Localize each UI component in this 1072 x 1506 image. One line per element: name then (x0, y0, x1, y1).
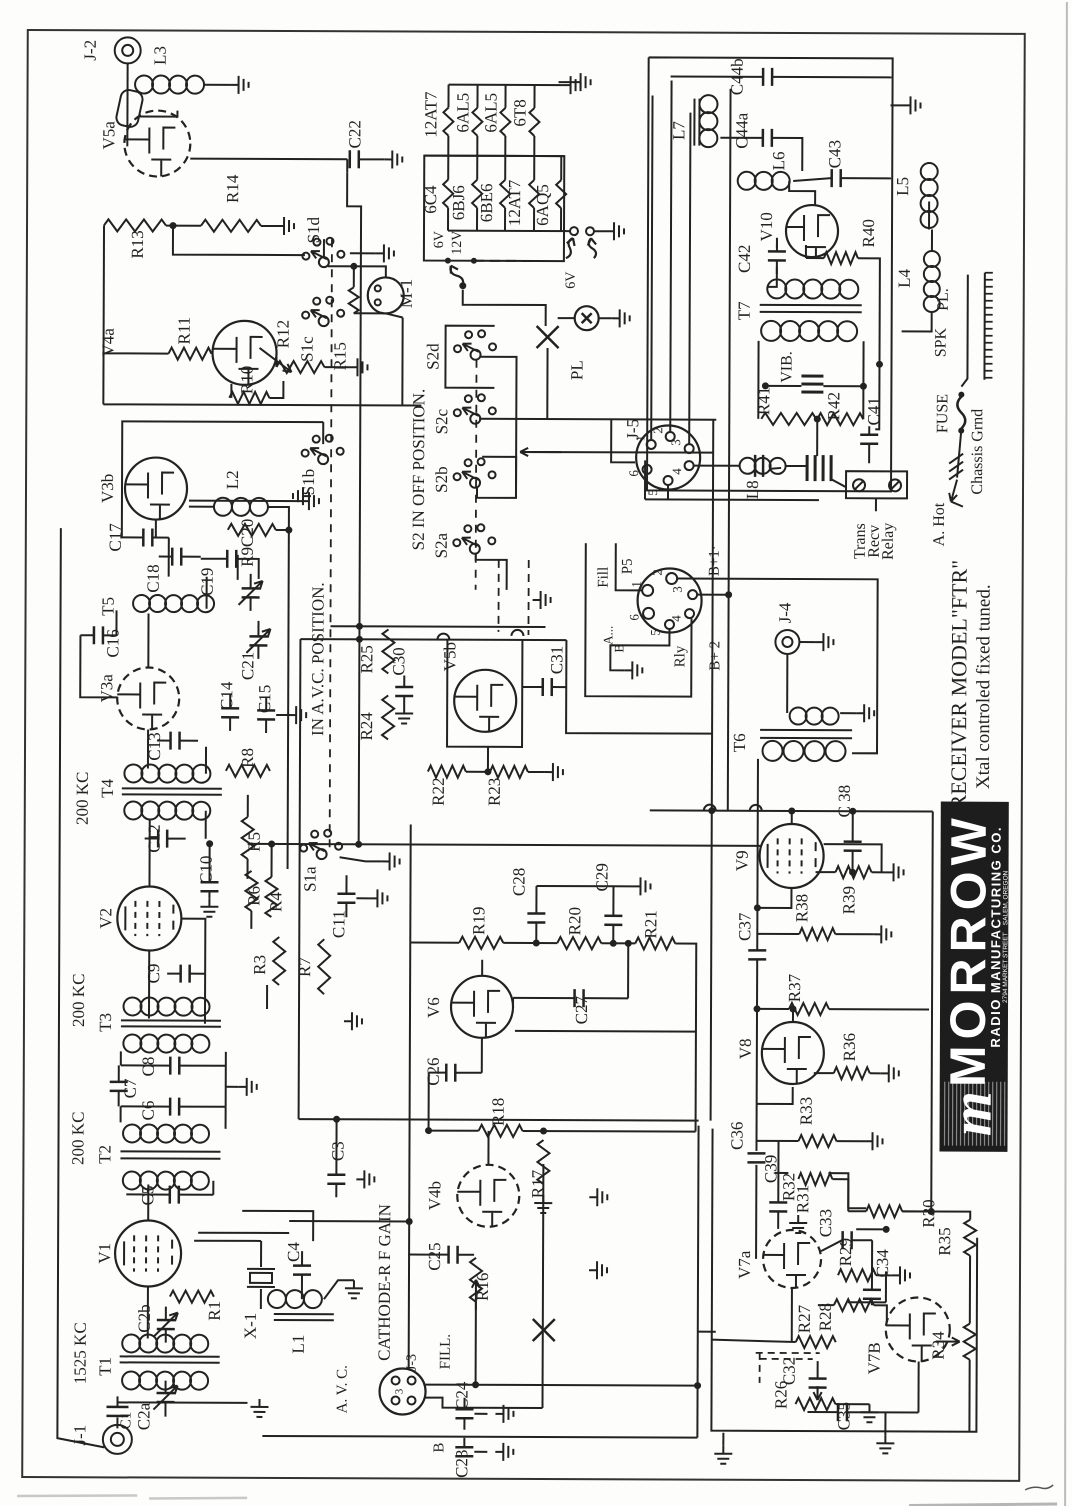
capacitor C5 (170, 1186, 179, 1204)
svg-text:FILL.: FILL. (438, 1334, 454, 1369)
coil L7 (699, 95, 717, 113)
svg-text:L2: L2 (223, 470, 242, 489)
resistor R22 (428, 766, 466, 778)
heater 12AT7 b (533, 156, 535, 180)
potentiometer R16 (470, 1258, 482, 1302)
svg-text:L7: L7 (669, 121, 688, 140)
relay box (846, 471, 907, 498)
wire R6 bottom link (250, 911, 252, 929)
svg-text:B: B (431, 1443, 447, 1453)
wire R39 left (816, 871, 836, 873)
margin scribble (1025, 1485, 1053, 1490)
capacitor C17 (143, 528, 152, 546)
wire C12-T4 link (205, 811, 207, 839)
svg-text:C1: C1 (118, 1412, 134, 1430)
svg-text:m: m (939, 1091, 1004, 1136)
ground C39 (789, 1215, 807, 1233)
wire S1d to C22 line (323, 239, 325, 257)
contact 12V (471, 258, 477, 264)
svg-text:C30: C30 (389, 647, 408, 675)
wire PL leads (558, 317, 575, 319)
svg-text:6: 6 (627, 614, 642, 621)
svg-text:C4: C4 (284, 1242, 303, 1262)
svg-text:R38: R38 (792, 894, 811, 922)
wire audio box (697, 1126, 698, 1438)
wire L3 bottom (138, 110, 177, 116)
switch S1c (319, 316, 329, 326)
tube V10 (786, 205, 838, 257)
wire V3a-T4 (147, 730, 149, 769)
ground R36 (881, 1064, 899, 1082)
svg-text:R12: R12 (274, 320, 293, 348)
switch S1d (319, 257, 329, 267)
wire L2-T5 (237, 555, 239, 580)
svg-text:S1b: S1b (299, 469, 318, 496)
coil L1 (268, 1290, 286, 1308)
heater 6AQ5 (560, 156, 562, 180)
wire T1-V1 (147, 1287, 149, 1339)
resistor R38 (799, 928, 835, 940)
resistor R31 (798, 1173, 832, 1185)
capacitor C30 (395, 687, 413, 696)
wire v5b dash a (497, 560, 499, 632)
svg-text:V5b: V5b (440, 642, 459, 671)
wire R14 to ground (261, 225, 276, 227)
wire bus y1120 (299, 1119, 699, 1121)
svg-text:T4: T4 (98, 778, 117, 797)
svg-text:S2d: S2d (423, 343, 442, 370)
wire C22 to ground (359, 158, 384, 160)
svg-text:R13: R13 (128, 230, 147, 258)
wire terminal b to gnd (594, 230, 606, 232)
svg-text:C31: C31 (547, 646, 566, 674)
svg-text:V9: V9 (733, 850, 752, 871)
svg-text:R15: R15 (330, 342, 349, 370)
svg-text:R1: R1 (205, 1301, 224, 1321)
wire vib right (823, 385, 863, 387)
switch S2d (471, 350, 481, 360)
wire C10 top link (209, 844, 211, 869)
ground V3b rail (301, 492, 319, 510)
svg-text:R23: R23 (485, 778, 504, 806)
svg-text:PL: PL (567, 360, 586, 380)
wire rail y406 (103, 404, 421, 405)
svg-text:R40: R40 (859, 219, 878, 247)
svg-text:R20: R20 (565, 907, 584, 935)
ground C3 (356, 1170, 374, 1188)
ground PL (612, 309, 630, 327)
wire relay down (875, 498, 877, 511)
ground S1a b (382, 852, 400, 870)
svg-text:C43: C43 (825, 140, 844, 168)
transformer T7 (767, 279, 786, 298)
antenna X mark (537, 326, 559, 348)
capacitor C16 (94, 626, 103, 644)
ground C23 (495, 1443, 513, 1461)
svg-text:T1: T1 (96, 1357, 115, 1376)
ground S1b (293, 487, 311, 505)
capacitor C10 (200, 882, 218, 891)
relay screw a (853, 479, 865, 491)
heater 6T8 (533, 85, 535, 108)
svg-text:R36: R36 (840, 1033, 859, 1061)
wire B+1 rail (677, 579, 878, 754)
svg-text:C22: C22 (345, 120, 364, 148)
ground heater terminals (606, 222, 624, 240)
heater 6AL5 b (504, 85, 506, 108)
wire R30 left link (848, 1207, 866, 1209)
vibrator contacts (801, 376, 823, 392)
wire bus x758 (756, 759, 759, 951)
resistor R3 (273, 937, 285, 985)
capacitor C28 (527, 913, 545, 922)
wire R40 right (857, 258, 880, 429)
junction R17 rail (540, 1128, 547, 1135)
wire B+2 lead (698, 594, 729, 596)
svg-text:IN A.V.C. POSITION.: IN A.V.C. POSITION. (308, 582, 328, 736)
wire T2 box right (225, 1052, 227, 1107)
wire V2 plate link (181, 919, 205, 974)
ground C22 (384, 150, 402, 168)
svg-text:C37: C37 (735, 912, 754, 941)
wire rail y452 (521, 451, 713, 454)
resistor R25 (382, 629, 394, 673)
resistor R28 (834, 1299, 874, 1311)
ganging dashed line S1 (330, 239, 332, 854)
resistor R39 (836, 866, 872, 878)
wire 6V junction down (463, 290, 546, 326)
ground box topleft (573, 73, 591, 91)
resistor R23 (490, 766, 528, 778)
svg-text:L3: L3 (151, 46, 170, 65)
wire S2a out (476, 553, 507, 590)
svg-text:R7: R7 (295, 957, 314, 977)
ground C24 (495, 1405, 513, 1423)
wire bus x300 (299, 639, 301, 1119)
svg-text:R11: R11 (175, 317, 194, 345)
resistor R21 (635, 937, 675, 949)
svg-text:FUSE: FUSE (934, 394, 951, 433)
svg-text:2794 MARKET STREET SALEM, O: 2794 MARKET STREET SALEM, OREGON (1002, 870, 1010, 1003)
svg-text:6AQ5: 6AQ5 (533, 184, 552, 226)
wire R16 bottom link (475, 1302, 477, 1385)
resistor R40 (824, 252, 858, 264)
wire C17-C18 link (168, 538, 170, 577)
capacitor C27 (575, 989, 584, 1007)
svg-text:200 KC: 200 KC (68, 1112, 87, 1165)
ground T6 (856, 704, 874, 722)
tube V5b (454, 670, 516, 732)
svg-text:RECEIVER MODEL"FTR": RECEIVER MODEL"FTR" (946, 560, 972, 810)
svg-text:1: 1 (629, 581, 644, 588)
wire R5 bottom link (247, 859, 249, 879)
wire S1d gnd lead (350, 252, 376, 254)
wire box edge x411 (409, 825, 411, 1369)
wire C31 right (566, 640, 712, 734)
heater terminal b (586, 227, 594, 235)
svg-text:C23: C23 (452, 1450, 471, 1478)
svg-text:5: 5 (645, 489, 660, 496)
wire T4-V2 (148, 819, 150, 887)
capacitor C39 (769, 1202, 787, 1211)
resistor R6 (245, 871, 257, 911)
tube V3a (117, 667, 179, 729)
capacitor C3 (327, 1175, 345, 1184)
switch S2b (470, 478, 480, 488)
wire T3-V2 (148, 951, 150, 1019)
heater 6BE6 (504, 156, 506, 180)
ground L3 (231, 76, 249, 94)
wire L3 to ground (204, 84, 231, 86)
resistor R42 (817, 413, 863, 425)
svg-text:C44a: C44a (732, 112, 751, 148)
capacitor C44b (763, 68, 772, 86)
crystal X-1 (250, 1273, 272, 1283)
margin smudge b (149, 1498, 247, 1499)
svg-text:V7a: V7a (735, 1250, 754, 1279)
wire L8 right (769, 468, 781, 469)
wire V7a cathode (791, 1288, 793, 1342)
tube V3b (125, 457, 187, 519)
svg-text:200 KC: 200 KC (69, 974, 88, 1027)
ground v4b area b (589, 1261, 607, 1279)
wire vib left (765, 385, 801, 387)
svg-text:6T8: 6T8 (510, 99, 529, 126)
squiggle to terminal b (588, 238, 596, 258)
svg-text:C3: C3 (328, 1141, 347, 1161)
junction vib left (762, 382, 769, 389)
svg-text:V1: V1 (95, 1243, 114, 1264)
wire R27 left link (698, 1331, 716, 1333)
resistor R9 (228, 524, 276, 536)
tube V6 (451, 976, 513, 1038)
svg-text:R32: R32 (779, 1173, 798, 1201)
svg-text:R16: R16 (473, 1273, 492, 1301)
svg-text:S2b: S2b (432, 466, 451, 493)
svg-text:R21: R21 (641, 910, 660, 938)
svg-text:P5: P5 (620, 558, 636, 574)
ground C35 (876, 1435, 894, 1453)
ground C10 (200, 899, 218, 917)
svg-text:S2 IN OFF POSITION.: S2 IN OFF POSITION. (409, 389, 429, 551)
wire V9 plate rail (824, 844, 882, 872)
capacitor C15 (257, 710, 275, 719)
svg-text:C36: C36 (727, 1122, 746, 1150)
svg-text:V10: V10 (757, 212, 776, 241)
wire V8 top link (792, 1009, 794, 1022)
wire C5-T2 link (212, 1181, 214, 1195)
wire C4-L1 (301, 1290, 303, 1299)
svg-text:C41: C41 (864, 397, 883, 425)
heater terminal a (570, 227, 578, 235)
svg-text:S2a: S2a (432, 532, 451, 558)
svg-text:S1c: S1c (298, 336, 317, 362)
junction x712 y810 (708, 807, 715, 814)
svg-text:V6: V6 (424, 997, 443, 1018)
svg-text:6AL5: 6AL5 (481, 93, 500, 133)
ground R23 (545, 763, 563, 781)
svg-text:SPK: SPK (933, 327, 950, 357)
svg-text:A. Hot: A. Hot (931, 502, 948, 546)
resistor R19 (459, 937, 503, 949)
svg-text:3: 3 (668, 439, 683, 446)
svg-text:R9: R9 (238, 547, 257, 567)
connector J-1 (103, 1425, 132, 1454)
svg-text:2: 2 (650, 569, 665, 576)
tube V2 (117, 886, 181, 950)
wire R31 leads (774, 1172, 788, 1174)
svg-text:A...: A... (600, 626, 615, 645)
capacitor C29 (604, 916, 622, 925)
wire audio box inner (711, 1129, 977, 1432)
svg-text:T6: T6 (730, 733, 749, 752)
svg-text:Fill: Fill (596, 567, 612, 588)
svg-text:R34: R34 (929, 1331, 948, 1360)
box S2d (445, 326, 494, 388)
wire R28 right link (848, 1301, 886, 1303)
resistor R37 (789, 1003, 829, 1015)
wire C18-T5 link (206, 577, 208, 609)
wire R12 right (324, 366, 349, 368)
capacitor C4 (293, 1266, 311, 1275)
svg-text:CATHODE-R F GAIN: CATHODE-R F GAIN (375, 1204, 395, 1361)
svg-text:PL.: PL. (935, 288, 952, 311)
resistor R18 (479, 1125, 523, 1137)
capacitor C11 (337, 894, 355, 903)
capacitor C6 (170, 1098, 179, 1116)
capacitor C24 (455, 1409, 473, 1418)
capacitor C38 (844, 842, 862, 851)
wire C25 left link (408, 1254, 426, 1256)
transformer T4 (124, 764, 142, 782)
svg-text:L6: L6 (769, 151, 788, 170)
svg-text:R22: R22 (429, 777, 448, 805)
capacitor C37 (748, 950, 766, 959)
wire L2 left (189, 506, 214, 508)
slashes (949, 454, 963, 480)
heater 6C4 (447, 156, 449, 180)
wire V1 plate route b (289, 1220, 409, 1222)
svg-text:L8: L8 (743, 480, 762, 499)
svg-text:1525 KC: 1525 KC (71, 1322, 90, 1384)
svg-text:3: 3 (394, 1388, 406, 1394)
resistor R13 (104, 219, 166, 231)
wire R13-R14 junction (166, 225, 201, 227)
wire T2 box left (120, 1051, 122, 1065)
svg-text:4: 4 (669, 615, 684, 622)
capacitor C22 (350, 150, 359, 168)
svg-text:200 KC: 200 KC (73, 772, 92, 825)
wire V6 plate link (512, 998, 514, 1007)
variable capacitor C2a (157, 1393, 175, 1402)
wire fuse line (961, 275, 967, 387)
svg-text:J-4: J-4 (775, 602, 794, 623)
svg-text:6V: 6V (432, 231, 447, 248)
resistor R33 (798, 1135, 836, 1147)
svg-text:C34: C34 (873, 1249, 892, 1278)
squiggle to terminal a (566, 238, 575, 258)
wire rail y640 (300, 639, 566, 640)
wire bus y1437 (262, 1436, 697, 1438)
resistor R10 (229, 392, 269, 404)
wire V9 top link (791, 811, 793, 824)
resistor R1 (170, 1291, 214, 1303)
X mark AVC (533, 1319, 555, 1341)
wire AVC top (60, 527, 62, 529)
wire R10 left (230, 384, 232, 398)
wire J-5 right lead (694, 465, 739, 467)
svg-text:T5: T5 (99, 597, 118, 616)
ground V7B area (714, 1446, 732, 1464)
wire dashed C32 (756, 1352, 820, 1354)
capacitor C25 (449, 1246, 458, 1264)
coil L8 (740, 458, 756, 474)
svg-text:S2c: S2c (432, 408, 451, 434)
heater bottom rail (448, 230, 570, 232)
heater 12AT7 (447, 85, 449, 108)
coil L2 (214, 498, 232, 516)
wire bus left x102 (102, 225, 105, 404)
hop bump c (704, 805, 716, 811)
wire bus y627 (330, 625, 545, 628)
resistor R20 (557, 937, 601, 949)
coil T5 (133, 595, 150, 612)
svg-text:R28: R28 (816, 1303, 835, 1331)
wire C33 right link (856, 1228, 886, 1230)
wire bus x712 (711, 420, 714, 1121)
wire V10 top lead (789, 181, 815, 205)
svg-text:R19: R19 (469, 907, 488, 935)
wire V5b cathode (487, 747, 489, 772)
wire V6 top link (481, 960, 483, 976)
wire C3 top link (335, 1119, 337, 1159)
capacitor C31 (543, 678, 552, 696)
wire V3b box left (122, 421, 323, 538)
wire bus x355 (345, 172, 362, 844)
svg-text:V2: V2 (96, 908, 115, 929)
margin smudge a (17, 1495, 137, 1496)
wire J-2 to V5a grid (126, 63, 128, 146)
ganging dashed line S2 (475, 360, 478, 590)
wire S2c out (479, 418, 716, 421)
wire J-5 bottom rail (645, 498, 819, 501)
junction vib right (860, 383, 867, 390)
svg-text:1: 1 (633, 435, 647, 441)
wire AVC bus (57, 528, 108, 1447)
wire V5a plate to C22 (190, 158, 347, 161)
capacitor C41 (860, 435, 878, 444)
ground v4b area (589, 1188, 607, 1206)
tube V4b (457, 1165, 519, 1227)
svg-text:6BJ6: 6BJ6 (449, 185, 468, 220)
capacitor C26 (446, 1064, 455, 1082)
capacitor C42 (768, 251, 786, 260)
potentiometer R26 (795, 1398, 835, 1410)
svg-text:L5: L5 (893, 177, 912, 196)
wire bus x728 (728, 89, 731, 811)
svg-text:R26: R26 (771, 1381, 790, 1409)
svg-text:R30: R30 (919, 1199, 938, 1227)
tube V8 (762, 1022, 824, 1084)
connector J-4 (775, 630, 799, 654)
hop bump b (511, 630, 523, 636)
resistor R11 (169, 348, 212, 360)
resistor R4 (265, 877, 277, 917)
resistor R7 (318, 939, 330, 994)
ground T2 box (239, 1078, 257, 1096)
capacitor C34 (863, 1290, 881, 1299)
svg-text:4: 4 (669, 468, 684, 475)
